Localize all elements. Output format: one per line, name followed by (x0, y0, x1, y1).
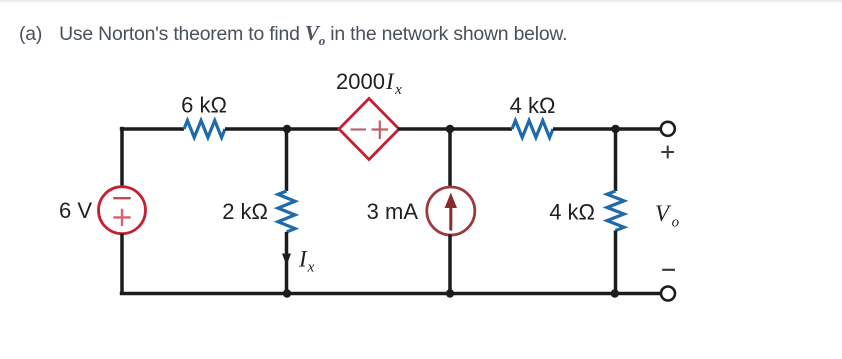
resistor 4 kOhm top (horizontal zigzag) (512, 121, 553, 138)
node: junction dot top of right 4k branch (611, 125, 619, 133)
terminal a (open circle, top right) (661, 122, 675, 136)
top page edge shading (0, 0, 842, 2)
wire: 2k branch vertical lower with Ix arrow (285, 232, 289, 294)
plus sign inside diamond (372, 121, 389, 140)
arrowhead of current Ix (pointing down) (282, 254, 291, 266)
problem statement text (19, 21, 567, 46)
resistor 4 kOhm right (vertical zigzag) (607, 191, 624, 230)
wire: 3mA branch vertical lower (448, 235, 452, 294)
wire: top-left horizontal segment (120, 127, 184, 131)
node: junction dot bottom of 3mA branch (446, 289, 454, 297)
node: junction dot bottom of 2k branch (283, 289, 291, 297)
svg-text:6 kΩ: 6 kΩ (181, 93, 227, 118)
wire: top-right segment to terminal (553, 127, 661, 131)
node: junction dot bottom of right 4k branch (611, 289, 619, 297)
wire: left vertical upper (from top wire to 6V source) (120, 127, 124, 187)
wire: 2k branch vertical upper (285, 129, 289, 191)
wire: left vertical lower (from 6V source to bottom wire) (120, 234, 124, 295)
svg-text:6 V: 6 V (59, 198, 92, 223)
minus sign of Vo (662, 269, 675, 271)
minus sign inside diamond (351, 128, 367, 130)
terminal b (open circle, bottom right) (661, 287, 675, 301)
svg-text:3 mA: 3 mA (367, 199, 419, 224)
wire: 3mA branch vertical upper (448, 129, 452, 188)
svg-text:2000Ix: 2000Ix (336, 69, 402, 98)
wire: right 4k branch vertical upper (614, 129, 618, 191)
svg-text:4 kΩ: 4 kΩ (549, 200, 595, 225)
plus sign inside 6V source (113, 209, 130, 226)
svg-text:Ix: Ix (298, 247, 315, 276)
node: junction dot top of 3mA branch (446, 125, 454, 133)
voltage source V 6V (circle) (99, 187, 146, 234)
wire: top segment between dependent source and 4k resistor (398, 127, 512, 131)
minus sign inside 6V source (113, 197, 130, 199)
current source 3 mA (circle) (427, 187, 475, 235)
wire: top segment between 6k resistor and dependent source (225, 127, 340, 131)
dependent voltage source 2000Ix (diamond) (339, 99, 399, 160)
svg-text:2 kΩ: 2 kΩ (222, 199, 268, 224)
plus sign of Vo (661, 146, 674, 159)
arrow inside current source (pointing up) (445, 193, 457, 231)
wire: right 4k branch vertical lower (614, 231, 618, 294)
resistor R 6 kOhm (horizontal zigzag) (184, 121, 225, 138)
svg-text:4 kΩ: 4 kΩ (510, 93, 556, 118)
resistor 2 kOhm (vertical zigzag) (278, 191, 295, 232)
svg-text:Vo: Vo (655, 201, 680, 231)
wire: bottom horizontal (120, 292, 661, 296)
node: junction dot top of 2k branch (283, 125, 291, 133)
